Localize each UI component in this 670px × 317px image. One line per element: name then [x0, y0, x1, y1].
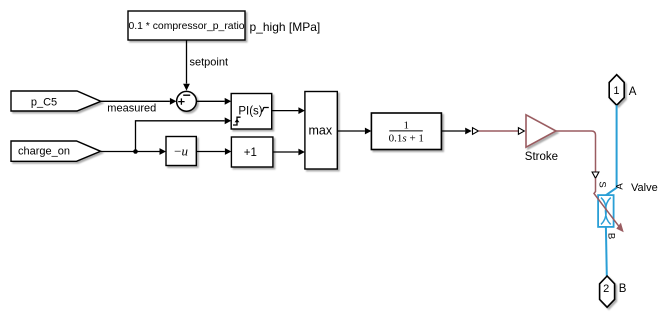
gain triangle Stroke [526, 115, 556, 147]
label setpoint [190, 57, 229, 69]
wire setpoint: constant to sum [183, 40, 190, 91]
annotation p_high [MPa] [250, 20, 321, 34]
svg-text:setpoint: setpoint [190, 57, 229, 69]
max block [305, 92, 337, 170]
bias block +1 [231, 137, 273, 167]
svg-text:measured: measured [107, 102, 156, 114]
constant block 0.1 * compressor_p_ratio [128, 11, 245, 40]
label B [619, 283, 627, 295]
wire +1 to max [273, 149, 305, 156]
hollow arrow at valve S port [592, 172, 599, 178]
wire transfer fcn output (black signal) [441, 128, 471, 135]
valve body [598, 195, 614, 227]
PI controller block PI(s) [231, 94, 272, 130]
svg-text:Stroke: Stroke [525, 151, 558, 163]
svg-text:p_high [MPa]: p_high [MPa] [250, 20, 321, 34]
two-phase fluid wire valve port B to port 2 [605, 227, 608, 276]
valve port label A [615, 183, 626, 190]
svg-text:B: B [605, 233, 616, 239]
svg-text:+1: +1 [244, 147, 257, 159]
svg-text:S: S [597, 181, 608, 187]
svg-text:B: B [619, 283, 627, 295]
valve port label B [605, 233, 616, 239]
wire junction to PI(s) reset input [136, 117, 232, 151]
valve variable-control arrow [594, 178, 624, 232]
wire charge_on to -u gain [101, 148, 166, 155]
label measured [107, 102, 156, 114]
valve port label S [597, 181, 608, 187]
hollow connector arrow at signal-PS boundary [473, 128, 479, 135]
svg-text:A: A [629, 86, 637, 98]
hollow arrow at Stroke input [518, 128, 524, 135]
svg-text:PI(s): PI(s) [238, 105, 262, 117]
wire -u to +1 [196, 148, 231, 155]
svg-text:2: 2 [603, 283, 609, 295]
svg-text:max: max [308, 124, 332, 138]
svg-text:charge_on: charge_on [18, 145, 70, 157]
svg-text:Valve: Valve [631, 182, 658, 194]
svg-text:p_C5: p_C5 [31, 96, 57, 108]
inport p_C5 [11, 91, 101, 111]
label Stroke [525, 151, 558, 163]
svg-text:0.1 * compressor_p_ratio: 0.1 * compressor_p_ratio [128, 21, 244, 32]
wire sum to PI(s) [196, 98, 231, 105]
connection port 2 [600, 276, 615, 307]
wire p_C5 to sum (measured) [101, 98, 176, 105]
label A [629, 86, 637, 98]
svg-text:1: 1 [404, 119, 410, 131]
wire max to transfer fcn [337, 128, 371, 135]
svg-text:−u: −u [174, 144, 188, 159]
svg-text:A: A [615, 183, 626, 190]
wire PI(s) to max [272, 107, 305, 114]
transfer function block 1/(0.1s+1) [371, 113, 441, 150]
gain block -u [166, 137, 196, 166]
svg-text:0.1s + 1: 0.1s + 1 [389, 133, 424, 145]
junction dot [133, 149, 138, 154]
physical signal wire into Stroke [479, 130, 518, 132]
svg-text:1: 1 [613, 85, 619, 97]
two-phase fluid wire port 1 to valve port A [606, 105, 617, 195]
connection port 1 [609, 75, 624, 106]
inport charge_on [11, 141, 101, 161]
label Valve [631, 182, 658, 194]
physical signal wire Stroke to valve S port [556, 131, 596, 172]
sum junction [177, 91, 197, 111]
